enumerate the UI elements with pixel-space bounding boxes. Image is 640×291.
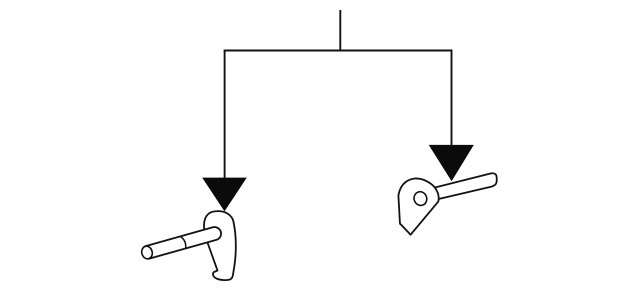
wire: top stem [339, 10, 341, 51]
part: latch rod (cylinder, left part) [145, 227, 221, 259]
wire: right drop [451, 50, 453, 147]
rod end face (ellipse, left part) [140, 245, 153, 260]
part: latch hook body (left part) [204, 211, 236, 280]
wire: left drop [224, 50, 226, 180]
part: lever arm (right part) [433, 173, 497, 199]
wire: horizontal branch [224, 50, 453, 52]
arrow: left arrowhead [202, 178, 247, 212]
rod seam line (left part) [180, 236, 185, 248]
lever hole (right part) [412, 190, 428, 207]
arrow: right arrowhead [429, 145, 474, 181]
part: lever head with shield (right part) [398, 178, 438, 234]
